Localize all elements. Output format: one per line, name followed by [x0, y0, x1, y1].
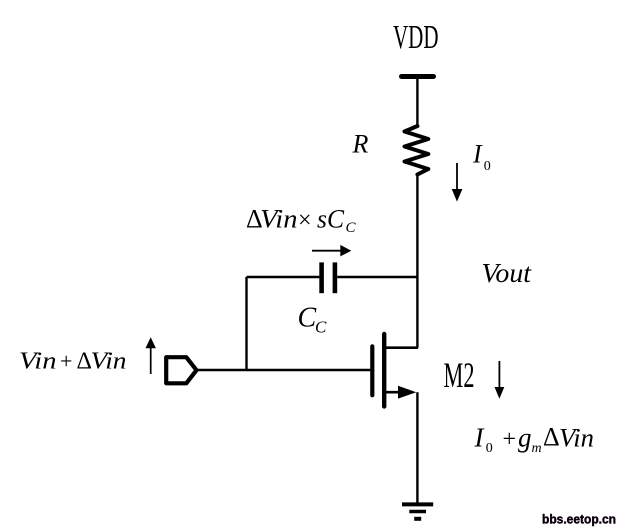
svg-text:C: C: [298, 303, 317, 334]
svg-text:0: 0: [484, 159, 491, 174]
svg-text:Vin: Vin: [91, 349, 127, 375]
svg-text:×: ×: [298, 207, 312, 233]
svg-text:0: 0: [486, 441, 493, 456]
svg-text:Vin: Vin: [559, 423, 594, 452]
svg-text:+: +: [503, 426, 517, 452]
svg-text:Vin: Vin: [19, 349, 57, 375]
svg-text:C: C: [315, 318, 327, 337]
svg-text:g: g: [518, 422, 532, 452]
svg-text:R: R: [352, 130, 369, 159]
svg-text:Δ: Δ: [543, 423, 560, 452]
svg-text:bbs.eetop.cn: bbs.eetop.cn: [542, 512, 616, 527]
svg-text:Vout: Vout: [482, 258, 533, 288]
svg-text:VDD: VDD: [393, 19, 439, 56]
svg-text:Vin: Vin: [260, 203, 298, 233]
svg-text:M2: M2: [444, 355, 475, 395]
svg-text:I: I: [472, 140, 483, 169]
svg-text:m: m: [532, 441, 542, 456]
svg-text:sC: sC: [317, 203, 344, 233]
svg-text:+: +: [60, 349, 72, 374]
svg-text:C: C: [346, 220, 357, 236]
